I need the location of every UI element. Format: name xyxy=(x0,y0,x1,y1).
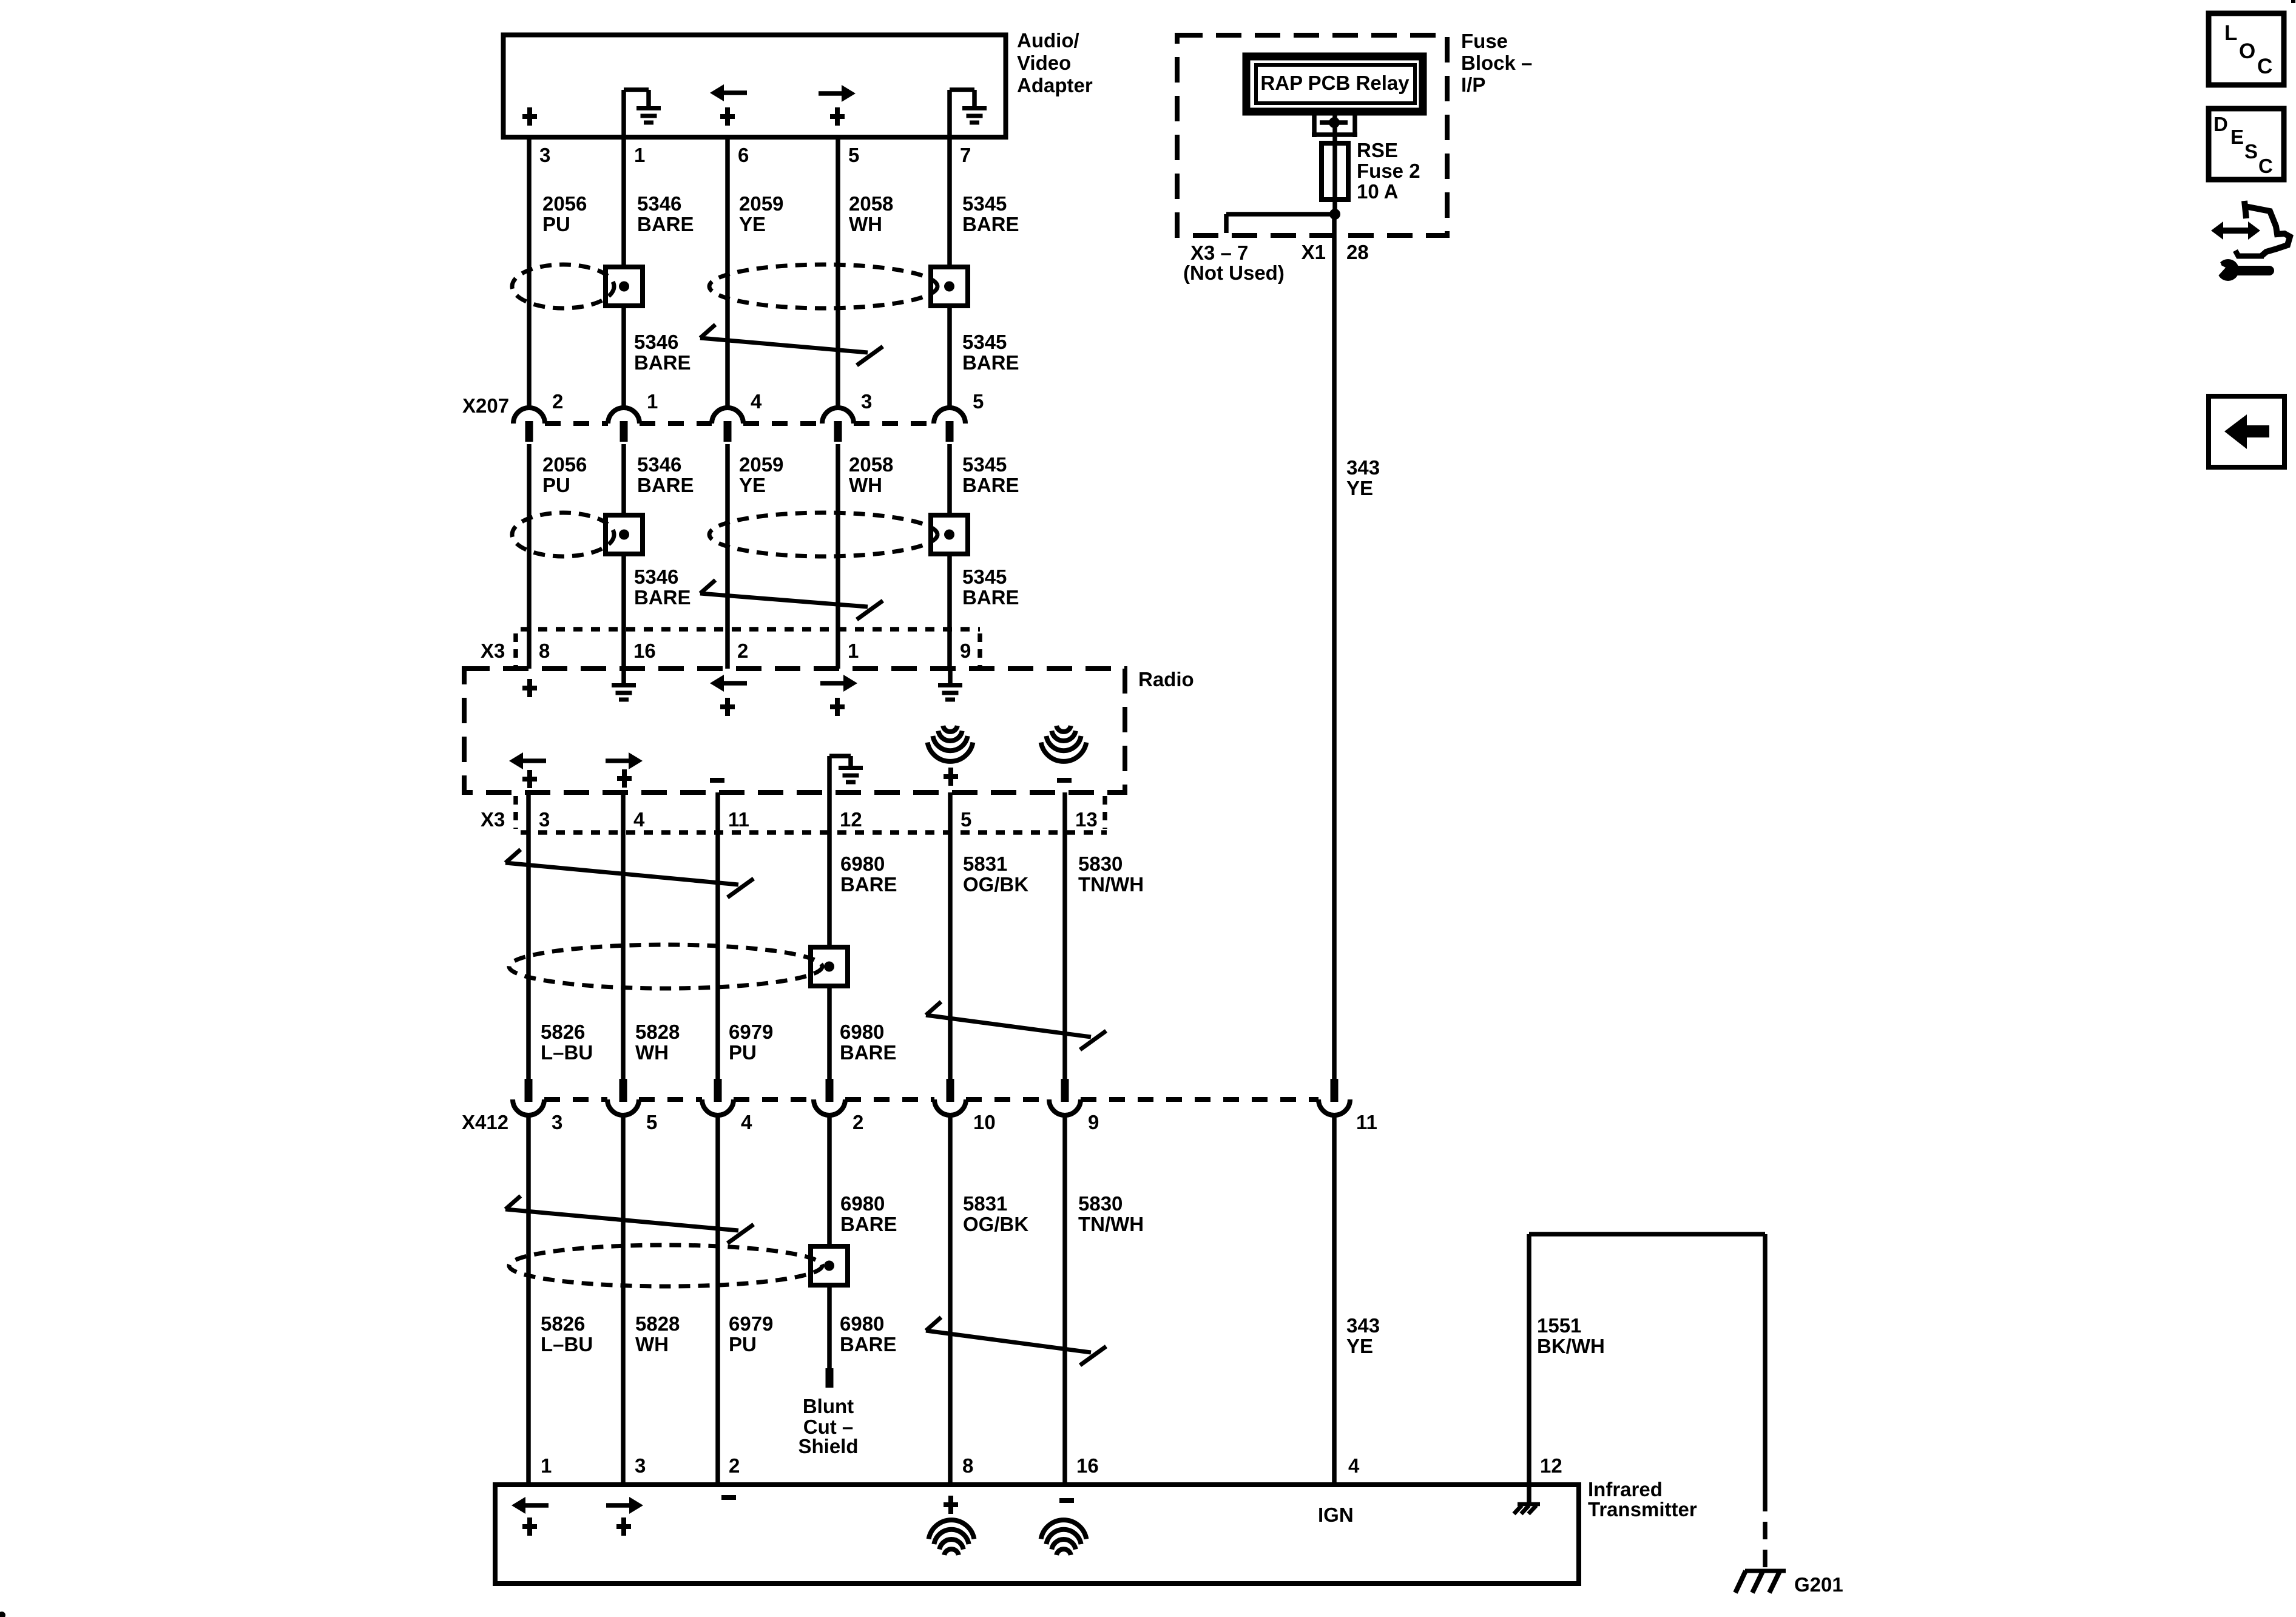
wire 2056 PU A/V pin3 to X207 xyxy=(527,137,532,408)
polarity + at A/V pin 5 xyxy=(830,114,845,119)
wire 2059 YE A/V pin6 to X207 xyxy=(725,137,730,408)
connector X412 pin 11 stub xyxy=(1331,1079,1339,1102)
svg-text:12: 12 xyxy=(840,808,862,831)
svg-text:13: 13 xyxy=(1075,808,1098,831)
svg-text:BARE: BARE xyxy=(634,351,691,374)
svg-text:6979: 6979 xyxy=(729,1312,773,1335)
connector X412 pin 3 arc xyxy=(513,1099,544,1115)
polarity + radio pin 8 xyxy=(522,686,537,690)
svg-text:6979: 6979 xyxy=(729,1021,773,1043)
connector X207 pin 4 arc xyxy=(712,408,743,424)
svg-text:8: 8 xyxy=(539,640,550,662)
shield ellipse around 5826/5828/6979 (row3) xyxy=(509,945,822,988)
audio left arrow IR pin 1 xyxy=(512,1497,525,1514)
icon back-arrow xyxy=(2224,414,2247,449)
polarity + radio pin 5 xyxy=(944,774,958,779)
svg-text:OG/BK: OG/BK xyxy=(963,1213,1028,1235)
svg-text:5: 5 xyxy=(961,808,971,831)
page artifact dot bottom-left xyxy=(0,1612,5,1617)
component Audio/Video Adapter box xyxy=(504,35,1006,138)
connector X412 pin 4 arc xyxy=(702,1099,734,1115)
connector X412 pin 2 arc xyxy=(814,1099,845,1115)
svg-text:9: 9 xyxy=(1088,1111,1099,1133)
twisted-pair symbol T1 xyxy=(700,338,868,353)
icon back-arrow box xyxy=(2209,396,2284,467)
svg-text:TN/WH: TN/WH xyxy=(1078,1213,1144,1235)
connector X3 bottom left separator xyxy=(513,796,518,829)
connector X3 top right separator xyxy=(977,633,982,666)
connector X3 top left separator xyxy=(513,633,518,666)
svg-text:TN/WH: TN/WH xyxy=(1078,873,1144,896)
wire 5345 BARE A/V pin7 to X207 xyxy=(947,90,952,408)
shield ellipse around 2056/5346 (row2) xyxy=(512,513,614,556)
svg-text:OG/BK: OG/BK xyxy=(963,873,1028,896)
polarity + at A/V pin 6 xyxy=(720,114,735,119)
polarity + radio pin 3 xyxy=(522,777,537,781)
svg-text:5828: 5828 xyxy=(635,1021,680,1043)
svg-text:Radio: Radio xyxy=(1138,668,1194,690)
antenna symbol IR pin 16 xyxy=(1056,1549,1071,1555)
connector X207 pin 1 arc xyxy=(608,408,640,424)
svg-text:WH: WH xyxy=(635,1333,669,1355)
svg-text:BARE: BARE xyxy=(962,586,1019,609)
wire branch to X3-7 not used xyxy=(1226,212,1335,217)
svg-text:2058: 2058 xyxy=(849,453,893,476)
svg-text:5: 5 xyxy=(848,144,859,166)
ground symbol inside A/V at pin 1 xyxy=(624,87,649,92)
svg-text:YE: YE xyxy=(1346,477,1373,499)
polarity + IR pin 1 xyxy=(522,1524,537,1529)
wire 5830 TN/WH radio to X412 xyxy=(1062,792,1067,1079)
svg-text:X412: X412 xyxy=(462,1111,508,1133)
svg-text:RAP PCB Relay: RAP PCB Relay xyxy=(1260,72,1410,94)
twisted-pair symbol T5 xyxy=(505,1209,738,1230)
svg-text:X207: X207 xyxy=(462,394,509,417)
audio left arrow radio pin 2 xyxy=(710,675,724,692)
wire 5346 BARE X207 to radio X3 xyxy=(621,444,626,669)
svg-text:WH: WH xyxy=(849,474,882,496)
connector X412 pin 11 arc xyxy=(1319,1099,1350,1115)
polarity + radio pin 4 xyxy=(617,776,632,781)
twisted-pair symbol T4 xyxy=(926,1015,1091,1037)
junction dot in shield box 6980 (row4) xyxy=(824,1261,834,1271)
shield termination box on wire 5345 (row2) xyxy=(931,515,968,554)
wire 5828 WH radio to X412 xyxy=(621,792,626,1079)
wire 6980 BARE X412 to blunt cut xyxy=(827,1115,832,1370)
svg-text:12: 12 xyxy=(1540,1454,1562,1477)
svg-text:O: O xyxy=(2239,39,2255,63)
connector X412 pin 9 arc xyxy=(1049,1099,1081,1115)
connector X207 pin 1 stub xyxy=(620,421,628,442)
svg-text:WH: WH xyxy=(849,213,882,235)
svg-text:3: 3 xyxy=(861,390,872,413)
svg-text:BARE: BARE xyxy=(637,474,694,496)
svg-text:BARE: BARE xyxy=(840,1041,897,1064)
wire 6980 BARE radio to X412 xyxy=(827,792,832,1079)
junction dot below fuse xyxy=(1329,209,1340,220)
connector X412 pin 5 arc xyxy=(607,1099,639,1115)
svg-text:5830: 5830 xyxy=(1078,1192,1123,1215)
svg-text:2058: 2058 xyxy=(849,192,893,215)
svg-text:1: 1 xyxy=(647,390,658,413)
antenna symbol IR pin 8 xyxy=(944,1549,959,1555)
svg-text:343: 343 xyxy=(1346,456,1380,479)
svg-text:I/P: I/P xyxy=(1461,73,1485,96)
polarity + radio pin 2 xyxy=(720,704,735,709)
svg-text:28: 28 xyxy=(1346,241,1369,263)
svg-text:Block –: Block – xyxy=(1461,52,1532,74)
svg-text:5345: 5345 xyxy=(962,565,1007,588)
shield termination box on wire 5346 (row2) xyxy=(606,515,643,554)
chassis ground inside IR at pin 12 xyxy=(1527,1485,1531,1504)
connector X3 bottom right separator xyxy=(1102,796,1107,829)
svg-text:L–BU: L–BU xyxy=(541,1041,593,1064)
svg-text:2: 2 xyxy=(853,1111,863,1133)
audio left arrow inside A/V pin 6 xyxy=(710,84,724,101)
antenna symbol radio pin 13 xyxy=(1056,726,1071,732)
svg-text:5831: 5831 xyxy=(963,1192,1007,1215)
svg-text:Adapter: Adapter xyxy=(1017,74,1093,96)
svg-text:4: 4 xyxy=(751,390,762,413)
svg-text:X3: X3 xyxy=(481,808,505,831)
wire 5345 BARE X207 to radio X3 xyxy=(947,444,952,669)
wire 6979 PU radio to X412 xyxy=(715,792,720,1079)
svg-text:L–BU: L–BU xyxy=(541,1333,593,1355)
svg-text:6980: 6980 xyxy=(840,1192,885,1215)
svg-text:5828: 5828 xyxy=(635,1312,680,1335)
svg-text:PU: PU xyxy=(729,1333,757,1355)
twisted-pair symbol T6 xyxy=(926,1331,1091,1352)
polarity + IR pin 8 xyxy=(944,1502,958,1507)
svg-text:BARE: BARE xyxy=(840,1333,897,1355)
svg-text:10: 10 xyxy=(973,1111,996,1133)
svg-text:BARE: BARE xyxy=(962,351,1019,374)
audio right arrow radio pin 4 xyxy=(629,752,643,769)
shield ellipse around 5826/5828/6979 (row4) xyxy=(509,1245,822,1286)
svg-text:BARE: BARE xyxy=(840,1213,897,1235)
svg-text:PU: PU xyxy=(542,213,570,235)
relay RAP PCB Relay inner box xyxy=(1256,65,1415,103)
junction dot in shield box 5346 (row2) xyxy=(619,530,629,540)
svg-text:5346: 5346 xyxy=(634,565,678,588)
connector X412 pin 10 arc xyxy=(934,1099,966,1115)
svg-text:L: L xyxy=(2224,21,2237,45)
svg-text:PU: PU xyxy=(729,1041,757,1064)
svg-text:BARE: BARE xyxy=(962,474,1019,496)
connector X412 pin 10 stub xyxy=(947,1079,954,1102)
shield termination box on wire 5345 (row1) xyxy=(931,267,968,306)
svg-text:11: 11 xyxy=(1356,1111,1377,1133)
connector X3 (radio top) dotted line xyxy=(521,627,980,632)
relay socket bracket xyxy=(1312,115,1317,137)
svg-text:BARE: BARE xyxy=(840,873,897,896)
fuse RSE Fuse 2 symbol xyxy=(1322,143,1348,200)
connector X207 dashed line xyxy=(545,421,608,426)
svg-text:4: 4 xyxy=(633,808,645,831)
svg-text:1: 1 xyxy=(541,1454,552,1477)
svg-text:5826: 5826 xyxy=(541,1312,585,1335)
svg-text:2059: 2059 xyxy=(739,453,783,476)
connector X3 (radio bottom) dotted line xyxy=(521,830,1107,835)
svg-text:5346: 5346 xyxy=(637,192,681,215)
svg-text:PU: PU xyxy=(542,474,570,496)
shield termination box on 6980 (row3) xyxy=(811,947,848,986)
svg-text:Video: Video xyxy=(1017,52,1071,74)
svg-text:YE: YE xyxy=(739,213,766,235)
shield ellipse around 2056/5346 (row1) xyxy=(512,265,614,308)
wire 5346 BARE A/V pin1 to X207 xyxy=(621,90,626,408)
polarity - IR pin 16 xyxy=(1059,1498,1074,1503)
svg-text:1: 1 xyxy=(634,144,645,166)
polarity + radio pin 1 xyxy=(830,704,845,709)
svg-text:5345: 5345 xyxy=(962,331,1007,353)
svg-text:3: 3 xyxy=(539,808,550,831)
svg-text:Fuse: Fuse xyxy=(1461,30,1508,52)
svg-text:WH: WH xyxy=(635,1041,669,1064)
svg-text:4: 4 xyxy=(1348,1454,1360,1477)
svg-text:7: 7 xyxy=(960,144,971,166)
wire relay to fuse xyxy=(1332,112,1337,144)
svg-text:5345: 5345 xyxy=(962,192,1007,215)
svg-text:YE: YE xyxy=(739,474,766,496)
svg-text:5831: 5831 xyxy=(963,852,1007,875)
wire 5830 TN/WH X412 to IR transmitter xyxy=(1062,1115,1067,1487)
audio right arrow IR pin 3 xyxy=(629,1497,643,1514)
svg-text:BARE: BARE xyxy=(637,213,694,235)
ground symbol radio pin 16 xyxy=(621,669,626,684)
svg-text:6: 6 xyxy=(738,144,749,166)
connector X412 dashed line xyxy=(544,1097,607,1102)
junction dot in shield box 5346 (row1) xyxy=(619,282,629,292)
icon LOC box xyxy=(2209,13,2284,85)
polarity + IR pin 3 xyxy=(616,1524,631,1529)
wire 5831 OG/BK X412 to IR transmitter xyxy=(948,1115,953,1487)
svg-text:Infrared: Infrared xyxy=(1588,1478,1663,1501)
junction dot in shield box 6980 (row3) xyxy=(824,962,834,972)
ground symbol radio pin 12 xyxy=(827,756,832,792)
component Radio dashed box xyxy=(464,669,1125,792)
wire 2058 WH A/V pin5 to X207 xyxy=(836,137,840,408)
svg-text:X1: X1 xyxy=(1302,241,1326,263)
wire 343 YE X412 to IR transmitter xyxy=(1332,1115,1337,1487)
svg-text:2056: 2056 xyxy=(542,453,587,476)
antenna symbol radio pin 5 xyxy=(943,726,957,732)
svg-text:2056: 2056 xyxy=(542,192,587,215)
polarity - radio pin 11 xyxy=(710,778,724,783)
connector X207 pin 4 stub xyxy=(724,421,732,442)
connector X412 pin 4 stub xyxy=(714,1079,722,1102)
svg-text:C: C xyxy=(2257,55,2272,78)
wire 2056 PU X207 to radio X3 xyxy=(527,444,532,669)
svg-text:2: 2 xyxy=(737,640,748,662)
svg-text:9: 9 xyxy=(960,640,971,662)
connector X207 pin 5 stub xyxy=(946,421,954,442)
svg-text:343: 343 xyxy=(1346,1314,1380,1337)
svg-text:6980: 6980 xyxy=(840,852,885,875)
svg-text:RSE: RSE xyxy=(1357,139,1398,161)
wire fuse to junction xyxy=(1332,200,1337,216)
svg-text:Audio/: Audio/ xyxy=(1017,29,1079,52)
svg-text:4: 4 xyxy=(741,1111,752,1133)
wire 2059 YE X207 to radio X3 xyxy=(725,444,730,669)
shield termination box on 6980 (row4) xyxy=(811,1246,848,1285)
polarity - radio pin 13 xyxy=(1057,778,1072,783)
svg-text:5346: 5346 xyxy=(637,453,681,476)
relay RAP PCB Relay outer box xyxy=(1246,56,1423,112)
wire 343 YE fuse block to X412 xyxy=(1332,214,1337,1079)
svg-text:IGN: IGN xyxy=(1318,1504,1354,1526)
wire 5826 L-BU X412 to IR transmitter xyxy=(526,1115,531,1487)
connector X207 pin 5 arc xyxy=(934,408,965,424)
svg-text:16: 16 xyxy=(1076,1454,1099,1477)
svg-text:16: 16 xyxy=(633,640,656,662)
svg-text:Transmitter: Transmitter xyxy=(1588,1498,1697,1521)
connector X412 pin 3 stub xyxy=(525,1079,533,1102)
svg-text:5345: 5345 xyxy=(962,453,1007,476)
svg-text:6980: 6980 xyxy=(840,1021,884,1043)
twisted-pair symbol T3 xyxy=(505,863,738,885)
icon wrench and connector xyxy=(2217,228,2255,234)
svg-text:10 A: 10 A xyxy=(1357,180,1398,203)
svg-text:5826: 5826 xyxy=(541,1021,585,1043)
svg-text:D: D xyxy=(2213,113,2228,135)
svg-text:3: 3 xyxy=(635,1454,646,1477)
wire 5831 OG/BK radio to X412 xyxy=(948,792,953,1079)
connector X412 pin 2 stub xyxy=(826,1079,834,1102)
ground G201 chassis symbol xyxy=(1745,1569,1786,1573)
svg-text:2: 2 xyxy=(729,1454,740,1477)
svg-text:G201: G201 xyxy=(1794,1573,1843,1596)
svg-text:1551: 1551 xyxy=(1537,1314,1581,1337)
twisted-pair symbol T2 xyxy=(700,593,868,607)
svg-text:YE: YE xyxy=(1346,1335,1373,1357)
svg-text:E: E xyxy=(2230,126,2244,148)
svg-text:(Not Used): (Not Used) xyxy=(1183,262,1285,284)
blunt cut shield stub xyxy=(826,1368,834,1388)
svg-text:8: 8 xyxy=(962,1454,973,1477)
svg-text:1: 1 xyxy=(848,640,859,662)
svg-text:X3 – 7: X3 – 7 xyxy=(1190,241,1248,264)
svg-text:2059: 2059 xyxy=(739,192,783,215)
polarity - IR pin 2 xyxy=(721,1495,736,1500)
svg-text:S: S xyxy=(2244,140,2258,163)
audio right arrow radio pin 1 xyxy=(843,675,857,692)
svg-text:Fuse 2: Fuse 2 xyxy=(1357,160,1420,182)
svg-text:3: 3 xyxy=(539,144,550,166)
icon DESC box xyxy=(2209,109,2284,180)
connector X207 pin 2 arc xyxy=(513,408,545,424)
polarity + at A/V pin 3 xyxy=(522,114,537,119)
junction dot in shield box 5345 (row2) xyxy=(944,530,954,540)
connector X412 pin 5 stub xyxy=(620,1079,627,1102)
ground symbol radio pin 9 xyxy=(948,669,953,684)
svg-text:5830: 5830 xyxy=(1078,852,1123,875)
svg-text:6980: 6980 xyxy=(840,1312,884,1335)
svg-text:2: 2 xyxy=(552,390,563,413)
svg-text:BARE: BARE xyxy=(634,586,691,609)
wire 5826 L-BU radio to X412 xyxy=(526,792,531,1079)
svg-text:Blunt: Blunt xyxy=(803,1395,854,1417)
svg-text:Shield: Shield xyxy=(798,1435,858,1457)
svg-text:5: 5 xyxy=(646,1111,657,1133)
component Fuse Block I/P dashed box xyxy=(1177,35,1447,235)
audio left arrow radio pin 3 xyxy=(509,752,523,769)
svg-text:C: C xyxy=(2258,155,2273,177)
wire 6979 PU X412 to IR transmitter xyxy=(715,1115,720,1487)
audio right arrow inside A/V pin 5 xyxy=(842,85,856,102)
wire 1551 dashed drop to G201 xyxy=(1763,1494,1768,1570)
wire 1551 BK/WH loop xyxy=(1527,1234,1531,1485)
junction dot in shield box 5345 (row1) xyxy=(944,282,954,292)
svg-text:11: 11 xyxy=(728,808,749,831)
svg-text:X3: X3 xyxy=(481,640,505,662)
svg-text:5: 5 xyxy=(973,390,984,413)
ground symbol inside A/V at pin 7 xyxy=(950,87,974,92)
svg-text:5346: 5346 xyxy=(634,331,678,353)
connector X207 pin 3 stub xyxy=(834,421,842,442)
shield termination box on wire 5346 (row1) xyxy=(606,267,643,306)
connector X207 pin 3 arc xyxy=(822,408,854,424)
wire 2058 WH X207 to radio X3 xyxy=(836,444,840,669)
connector X207 pin 2 stub xyxy=(525,421,533,442)
wire 5828 WH X412 to IR transmitter xyxy=(621,1115,626,1487)
svg-text:BK/WH: BK/WH xyxy=(1537,1335,1605,1357)
shield ellipse around 2059/2058/5345 (row1) xyxy=(709,265,937,308)
connector X412 pin 9 stub xyxy=(1061,1079,1069,1102)
component Infrared Transmitter box xyxy=(495,1485,1579,1584)
svg-text:BARE: BARE xyxy=(962,213,1019,235)
svg-text:3: 3 xyxy=(552,1111,562,1133)
junction dot at relay bracket xyxy=(1329,117,1340,128)
shield ellipse around 2059/2058/5345 (row2) xyxy=(709,513,937,556)
page artifact mark top-right xyxy=(2291,0,2295,3)
